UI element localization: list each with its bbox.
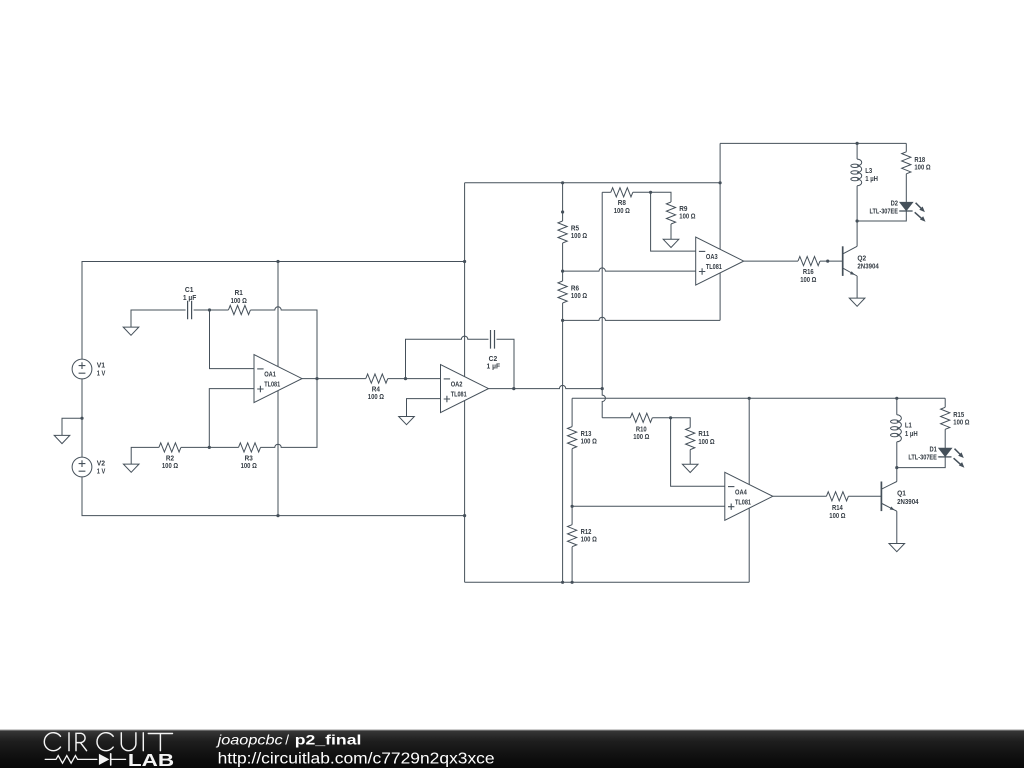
- wire R2 ground stub: [131, 447, 150, 464]
- wire OA3 non-inverting input with hop: [563, 268, 696, 271]
- wire OA1 output to R4: [302, 378, 366, 380]
- node L1 / D1 / Q1 collector: [895, 466, 898, 469]
- wire R5 column top lead: [562, 183, 564, 221]
- wire common column through OA1: [277, 262, 279, 516]
- resistor R6 100 Ohm: [558, 281, 567, 303]
- wire D2 branch lower: [857, 211, 906, 221]
- svg-text:1 µH: 1 µH: [905, 429, 918, 438]
- node L3 top: [856, 142, 859, 145]
- wire feedback to C2 with hop over box edge: [406, 336, 489, 379]
- wire R15 leads: [944, 398, 946, 448]
- capacitor C2 1 uF: [491, 330, 495, 349]
- resistor R3 100 Ohm: [239, 443, 261, 452]
- wire R8 right lead: [633, 191, 651, 193]
- wire R11 to ground: [689, 450, 691, 465]
- wire OA1 inverting input: [210, 310, 255, 369]
- wire OA3 box top edge: [720, 142, 906, 144]
- wire L3 bottom lead: [856, 186, 858, 221]
- wire ground stub from source rail: [62, 418, 82, 435]
- ground symbol at Q1: [889, 544, 905, 552]
- svg-text:LAB: LAB: [128, 750, 174, 768]
- wire C1 to node: [194, 309, 210, 311]
- svg-text:100 Ω: 100 Ω: [571, 291, 587, 300]
- resistor R2 100 Ohm: [159, 443, 181, 452]
- resistor R9 100 Ohm: [666, 202, 675, 224]
- inductor L1 1 uH: [897, 415, 902, 442]
- wire R3 leads and feedback to OA1 output with hop: [209, 379, 317, 448]
- svg-text:100 Ω: 100 Ω: [829, 511, 845, 520]
- svg-text:100 Ω: 100 Ω: [614, 206, 630, 215]
- svg-text:1 µF: 1 µF: [487, 362, 501, 371]
- node R5 / R6 / OA3 non-inverting wire: [561, 270, 564, 273]
- wire R10 node to R11: [671, 418, 691, 428]
- node C2 / OA2 output: [512, 387, 515, 390]
- op-amp OA3 TL081: [696, 237, 744, 285]
- resistor R10 100 Ohm: [630, 413, 652, 422]
- wire box top edge: [465, 182, 720, 184]
- resistor R12 100 Ohm: [568, 525, 577, 547]
- node L3 / D2 / Q2 collector: [856, 219, 859, 222]
- wire OA3 output to R16: [744, 260, 798, 262]
- wire OA1 non-inverting input: [209, 389, 254, 448]
- wire D1 branch lower: [897, 457, 945, 468]
- logo wordmark CIRCUIT: [44, 733, 60, 751]
- svg-text:100 Ω: 100 Ω: [241, 461, 257, 470]
- node bottom rail / OA1 common column: [276, 514, 279, 517]
- wire V1 bottom to ground junction to V2 top: [81, 379, 83, 457]
- wire R4 to OA2 inverting input: [388, 378, 441, 380]
- svg-text:100 Ω: 100 Ω: [368, 392, 384, 401]
- svg-text:2N3904: 2N3904: [897, 497, 919, 506]
- wire Q1 collector: [896, 468, 898, 482]
- svg-text:100 Ω: 100 Ω: [571, 231, 587, 240]
- wire OA4 output to R14: [773, 495, 827, 497]
- svg-text:TL081: TL081: [706, 262, 723, 271]
- wire OA3 inverting input: [651, 192, 696, 251]
- wire R8-R10 column hop over rail: [602, 389, 605, 418]
- node bottom bus at R12: [571, 581, 574, 584]
- node R16 output to base: [826, 260, 829, 263]
- svg-text:joaopcbc/p2_final: joaopcbc/p2_final: [215, 733, 361, 748]
- wire R8 node to R9: [651, 192, 671, 202]
- node upper rail at L1: [895, 397, 898, 400]
- transistor Q1 2N3904: [880, 482, 882, 512]
- svg-text:TL081: TL081: [735, 497, 752, 506]
- wire OA3 box left edge: [719, 143, 721, 320]
- logo resistor-diode squiggle: [45, 756, 97, 764]
- svg-text:100 Ω: 100 Ω: [633, 432, 649, 441]
- wire column corner to R10: [602, 417, 630, 419]
- wire C2 to OA2 output: [497, 339, 515, 388]
- resistor R11 100 Ohm: [686, 428, 695, 450]
- svg-text:TL081: TL081: [451, 390, 468, 399]
- node OA1 output junction: [315, 377, 318, 380]
- wire R13 top corner and upper rail of OA4 block: [572, 397, 945, 399]
- node source midpoint ground tap: [80, 417, 83, 420]
- resistor R5 100 Ohm: [558, 221, 567, 243]
- svg-text:100 Ω: 100 Ω: [581, 535, 597, 544]
- resistor R1 100 Ohm: [210, 309, 229, 311]
- node bottom rail end at box left edge: [463, 514, 466, 517]
- svg-text:OA2: OA2: [451, 380, 463, 389]
- wire V2 bottom to bottom rail: [82, 477, 465, 516]
- ground symbol at Q2: [849, 298, 865, 306]
- wire R6 column down to bottom bus: [562, 303, 564, 582]
- svg-text:100 Ω: 100 Ω: [162, 461, 178, 470]
- wire R16 to Q2 base: [820, 260, 843, 262]
- svg-text:1 µH: 1 µH: [865, 174, 878, 183]
- resistor R15 100 Ohm: [941, 407, 950, 429]
- resistor R18 100 Ohm: [902, 152, 911, 174]
- wire L1 top lead: [896, 398, 898, 415]
- LED D2 LTL-307EE: [900, 202, 913, 210]
- LED D1 LTL-307EE: [939, 448, 952, 456]
- inductor L3 1 uH: [857, 159, 862, 186]
- voltage source V2 1 V: [72, 457, 92, 477]
- svg-text:1 µF: 1 µF: [183, 293, 197, 302]
- node top rail end at box left edge: [463, 260, 466, 263]
- wire R5 to R6: [562, 243, 564, 281]
- wire L3 top lead: [856, 143, 858, 159]
- ground symbol at sources: [54, 435, 70, 443]
- wire top rail from V1 to summing box: [82, 262, 465, 360]
- node box top at R5 column: [561, 181, 564, 184]
- wire R8 left lead from column: [602, 191, 611, 193]
- svg-text:1 V: 1 V: [97, 368, 106, 377]
- resistor R8 100 Ohm: [611, 188, 633, 197]
- op-amp OA2 TL081: [441, 365, 489, 413]
- wire R1 to OA1 output column with hop: [250, 307, 317, 379]
- svg-text:TL081: TL081: [264, 380, 281, 389]
- wire Q2 emitter to ground: [856, 276, 858, 298]
- svg-text:100 Ω: 100 Ω: [914, 163, 930, 172]
- wire Q1 emitter to ground: [896, 511, 898, 543]
- wire R9 to ground: [670, 224, 672, 239]
- wire Q2 collector: [856, 221, 858, 246]
- capacitor C1 1 uF: [188, 301, 192, 320]
- node bottom bus at R5 column: [561, 581, 564, 584]
- svg-text:OA4: OA4: [735, 487, 747, 496]
- node R13 / R12 / OA4 non-inverting wire: [571, 505, 574, 508]
- resistor R4 100 Ohm: [366, 374, 388, 383]
- wire OA4 non-inverting input: [572, 505, 725, 507]
- node R6 bottom / box lower edge: [561, 319, 564, 322]
- wire OA4 box right edge: [748, 398, 750, 582]
- wire OA2 output with hop over R5 column: [489, 385, 603, 388]
- node upper rail at OA4 box edge: [748, 397, 751, 400]
- wire R10 right lead: [652, 417, 670, 419]
- ground symbol at R2: [123, 464, 139, 472]
- wire R2 body leads: [150, 446, 209, 448]
- ground symbol at R9: [663, 239, 679, 247]
- node R5 top terminal: [561, 210, 564, 213]
- wire bottom bus: [465, 581, 750, 583]
- resistor R13 100 Ohm: [571, 398, 573, 426]
- svg-text:100 Ω: 100 Ω: [800, 275, 816, 284]
- wire OA2 non-inverting input to ground: [407, 399, 441, 417]
- svg-text:LTL-307EE: LTL-307EE: [870, 207, 899, 216]
- wire C1 ground stub: [131, 310, 186, 327]
- wire R12 to bottom bus: [571, 547, 573, 583]
- wire summing box left edge: [464, 183, 466, 583]
- wire box lower edge to OA3 box with hop: [563, 317, 721, 320]
- node box top at OA3 box edge: [719, 181, 722, 184]
- wire R14 to Q1 base: [848, 495, 881, 497]
- footer bar: [0, 730, 1024, 768]
- svg-text:100 Ω: 100 Ω: [698, 437, 714, 446]
- svg-text:http://circuitlab.com/c7729n2q: http://circuitlab.com/c7729n2qx3xce: [218, 751, 495, 768]
- node R10 / R11 / OA4 inverting wire: [669, 416, 672, 419]
- svg-text:OA1: OA1: [264, 370, 276, 379]
- svg-text:LTL-307EE: LTL-307EE: [908, 453, 937, 462]
- voltage source V1 1 V: [72, 359, 92, 379]
- node R4 / feedback / OA2 inverting input: [404, 377, 407, 380]
- resistor R14 100 Ohm: [826, 492, 848, 501]
- svg-text:100 Ω: 100 Ω: [953, 418, 969, 427]
- wire R8-R10 column: [601, 192, 603, 388]
- svg-text:100 Ω: 100 Ω: [231, 296, 247, 305]
- wire OA4 inverting input: [671, 418, 725, 487]
- svg-text:2N3904: 2N3904: [857, 262, 879, 271]
- node top rail / OA1 common column: [276, 260, 279, 263]
- node R8 / R9 / OA3 inverting wire: [649, 191, 652, 194]
- wire R18 leads: [905, 143, 907, 202]
- ground symbol at R11: [682, 464, 698, 472]
- op-amp OA4 TL081: [725, 472, 773, 520]
- svg-text:1 V: 1 V: [97, 466, 106, 475]
- svg-text:100 Ω: 100 Ω: [581, 437, 597, 446]
- node OA2 output at R8-R10 column: [601, 387, 604, 390]
- svg-text:OA3: OA3: [706, 252, 718, 261]
- resistor R16 100 Ohm: [798, 257, 820, 266]
- node C1 / R1 / OA1 inverting input: [208, 308, 211, 311]
- svg-text:100 Ω: 100 Ω: [679, 212, 695, 221]
- node R2 / R3 / OA1 non-inverting input: [208, 446, 211, 449]
- ground symbol at OA2: [399, 417, 415, 425]
- wire L1 bottom lead: [896, 442, 898, 468]
- ground symbol at C1: [123, 327, 139, 335]
- op-amp OA1 TL081: [254, 355, 302, 403]
- transistor Q2 2N3904: [842, 246, 844, 276]
- wire R13 to R12: [571, 449, 573, 525]
